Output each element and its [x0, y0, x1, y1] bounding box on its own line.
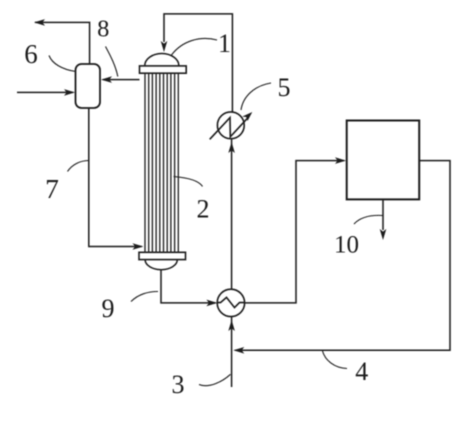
wire 1: top loop into reactor dome	[161, 14, 233, 112]
leader 7	[68, 161, 89, 172]
leader 5	[241, 83, 271, 110]
svg-text:7: 7	[45, 173, 59, 204]
svg-text:9: 9	[102, 294, 115, 323]
leader 8	[106, 47, 118, 77]
reactor R2 bottom flange	[139, 252, 186, 259]
svg-text:8: 8	[97, 16, 109, 43]
leader 9	[131, 291, 158, 301]
wire feed arrow into vessel 6 left	[17, 89, 75, 96]
leader lines	[49, 38, 383, 385]
svg-text:2: 2	[197, 195, 210, 224]
wire top-left product outlet from vessel 6	[34, 19, 90, 64]
svg-text:5: 5	[278, 73, 291, 102]
vessel V6 (knockout drum)	[76, 64, 101, 108]
reactor R2 tube bundle shell	[145, 73, 178, 252]
heat exchanger E5 zigzag coil with flow arrow	[210, 112, 253, 139]
svg-text:4: 4	[355, 357, 368, 386]
leader 10	[354, 215, 383, 224]
svg-text:10: 10	[334, 232, 359, 259]
separator box 10	[347, 121, 420, 200]
reactor R2 top flange	[140, 66, 187, 73]
wire exchanger E9 outlet to separator	[245, 157, 346, 303]
svg-text:6: 6	[24, 39, 38, 69]
heat exchanger E9 circle	[217, 289, 244, 316]
svg-text:3: 3	[172, 370, 185, 399]
reactor R2 bottom dome	[145, 260, 177, 270]
svg-text:1: 1	[218, 29, 231, 58]
leader 3	[199, 374, 231, 385]
wire product 10 outlet arrow	[380, 199, 387, 240]
leader 2	[174, 177, 203, 187]
leader 6	[49, 56, 76, 72]
heat exchanger E9 zigzag coil	[217, 297, 244, 307]
leader 4	[323, 351, 348, 369]
reactor R2 top dome	[145, 54, 179, 66]
leader 1	[172, 38, 218, 55]
wire feed 3 riser below E9	[228, 317, 235, 387]
wire 7: vessel 6 bottom recycle down and into reactor bottom	[89, 108, 144, 250]
heat exchanger E5 circle	[217, 112, 244, 139]
wire 9: reactor bottom outlet to exchanger E9	[161, 270, 217, 307]
wire 8: line from reactor top flange to vessel 6	[101, 76, 140, 83]
wire main riser between E5 and E9	[228, 139, 235, 289]
wire 4: recycle from separator right back to feed line	[233, 161, 450, 354]
